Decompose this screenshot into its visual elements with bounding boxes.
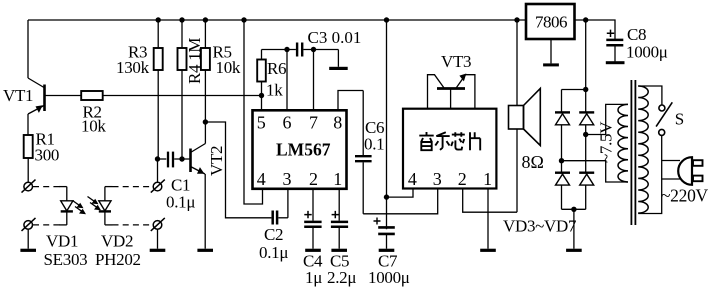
capacitor C8: [606, 30, 623, 62]
wire C6 bottom to music pin3: [363, 189, 438, 214]
wire J3 up to node A: [157, 159, 159, 182]
pin 1: [333, 169, 342, 189]
label R4 1M (rotated): [185, 38, 204, 84]
music pin 1: [483, 169, 492, 189]
pin 4: [257, 169, 266, 189]
diode VD4 upper-left: [555, 90, 570, 161]
diode VD2 (photodiode): [99, 187, 111, 225]
diode VD5 upper-right: [579, 90, 594, 173]
label VD3~VD7: [503, 217, 577, 236]
plug ~220V: [678, 157, 702, 185]
pin 8: [333, 113, 342, 133]
pin 7: [309, 113, 318, 133]
svg-text:1000μ: 1000μ: [626, 43, 668, 62]
label C7 1000u: [368, 252, 410, 288]
capacitor C7: [374, 218, 395, 249]
node dots on C3 line: [284, 47, 316, 52]
wire dashed VD2 to J3: [105, 186, 153, 188]
switch S: [656, 102, 672, 135]
wire to plug bottom prong: [662, 178, 680, 180]
label R6 1k: [266, 59, 286, 100]
svg-text:300: 300: [35, 146, 60, 165]
wire rail to speaker top: [516, 20, 518, 106]
resistor R2: [81, 91, 103, 100]
node C (R5/VT2 collector): [203, 119, 208, 124]
svg-text:~7.5V: ~7.5V: [597, 121, 616, 163]
label VT2 (rotated): [207, 146, 226, 176]
ground under 7806: [543, 63, 559, 66]
wire pin5 lead: [261, 96, 263, 111]
node dots on rail: [156, 17, 589, 22]
svg-text:3: 3: [283, 169, 292, 189]
ground under C5: [331, 249, 347, 252]
wire speaker bottom: [516, 129, 518, 212]
svg-text:10k: 10k: [81, 117, 106, 136]
wire AC1 bridge to secondary bottom: [562, 161, 629, 182]
svg-text:6: 6: [283, 113, 292, 133]
jack J3 top-right: [151, 180, 165, 193]
wire rail right of 7806 to C8: [575, 20, 616, 40]
svg-text:VT2: VT2: [207, 146, 226, 176]
svg-text:VT3: VT3: [441, 52, 471, 71]
resistor R4: [178, 20, 187, 159]
wire pin6 lead: [286, 50, 288, 111]
svg-text:SE303: SE303: [44, 250, 88, 269]
label VD1 SE303: [44, 232, 88, 270]
wire switch down / plug branch: [638, 136, 662, 214]
svg-text:1k: 1k: [266, 81, 283, 100]
wire bridge bottom bar: [562, 208, 586, 210]
svg-text:1: 1: [333, 169, 342, 189]
svg-text:1μ: 1μ: [305, 268, 322, 287]
capacitor C6: [355, 91, 372, 214]
svg-text:10k: 10k: [216, 58, 241, 77]
music pin 2: [458, 169, 467, 189]
node B (R4/VT2 base): [179, 156, 184, 161]
wire 7806 ground: [550, 39, 552, 63]
wire pin8 lead: [338, 91, 363, 111]
node R6/pin5: [259, 93, 264, 98]
resistor R6: [257, 50, 266, 96]
svg-text:~220V: ~220V: [661, 186, 709, 206]
svg-text:3: 3: [433, 169, 442, 189]
wire music pin1 to ground: [487, 189, 489, 249]
capacitor C3: [297, 43, 338, 57]
transistor VT1: [28, 20, 45, 135]
ground under bridge: [566, 249, 582, 252]
label ~7.5V (rotated): [597, 121, 616, 163]
wire R1 to jack: [27, 158, 29, 182]
pin 6: [283, 113, 292, 133]
regulator U3 7806 box: [526, 4, 575, 39]
arrows VD1 emitting: [73, 201, 87, 215]
svg-text:C2: C2: [264, 225, 283, 244]
wire R2 to R6/pin5 node: [103, 95, 262, 97]
pin 3: [283, 169, 292, 189]
svg-text:C8: C8: [627, 25, 646, 44]
wire J2 to ground: [27, 229, 29, 249]
wire LM567 pin4 to rail: [244, 20, 263, 204]
label C5 2.2u: [327, 252, 356, 288]
svg-text:0.1: 0.1: [364, 135, 384, 154]
transformer T secondary winding ~7.5V: [618, 104, 628, 182]
svg-text:7: 7: [309, 113, 318, 133]
svg-text:1000μ: 1000μ: [368, 268, 410, 287]
label C4 1u: [303, 252, 323, 288]
wire VT2 collector node to C2: [205, 122, 271, 218]
ground under music pin1: [480, 249, 496, 252]
ground under VT2 emitter: [197, 249, 213, 252]
svg-text:PH202: PH202: [95, 250, 141, 269]
label C1 0.1u: [166, 176, 195, 212]
svg-text:VD1: VD1: [46, 232, 78, 251]
wire dashed VD2 to J4: [105, 224, 153, 226]
label ~220V: [661, 186, 709, 206]
diode VD6 lower-left: [555, 161, 570, 210]
ground under C4: [305, 249, 321, 252]
wire bridge top bar: [562, 89, 586, 91]
svg-text:4: 4: [408, 169, 417, 189]
wire VT1 base to R2: [45, 95, 82, 97]
svg-text:LM567: LM567: [276, 140, 331, 160]
label VD2 PH202: [95, 232, 141, 270]
speaker BL: [509, 89, 541, 146]
label 8 ohm: [522, 152, 544, 172]
wire pin7 lead: [313, 50, 315, 111]
capacitor C1: [158, 152, 191, 168]
transistor VT3: [428, 74, 475, 109]
svg-text:4: 4: [257, 169, 266, 189]
node dots bridge: [559, 87, 589, 212]
diode VD1 (IR emitter): [61, 187, 73, 225]
transformer T primary winding: [638, 86, 648, 213]
ground under C7: [379, 249, 395, 252]
label C3 0.01: [308, 28, 362, 47]
wire dashed VD1 to J2: [33, 224, 67, 226]
wire music pin2 to speaker: [463, 189, 517, 213]
svg-text:0.1μ: 0.1μ: [259, 243, 288, 262]
wire top supply rail: [28, 19, 526, 21]
wire C3 to ground: [337, 50, 339, 67]
ground after C3: [329, 67, 348, 70]
svg-text:130k: 130k: [116, 58, 150, 77]
wire dashed J1 to VD1: [33, 186, 67, 188]
label R1 300: [35, 130, 60, 165]
label C2 0.1u: [259, 225, 288, 262]
svg-text:VD3~VD7: VD3~VD7: [503, 217, 577, 236]
svg-text:VT1: VT1: [3, 86, 33, 105]
label music chip (drawn glyphs): [419, 132, 480, 150]
svg-text:2.2μ: 2.2μ: [327, 268, 356, 287]
svg-text:VD2: VD2: [101, 232, 133, 251]
svg-text:8: 8: [333, 113, 342, 133]
svg-text:0.1μ: 0.1μ: [166, 193, 195, 212]
IC U2 music chip box: [403, 109, 496, 189]
label S: [675, 110, 684, 129]
node A (R3/C1/J3): [155, 156, 160, 161]
svg-text:2: 2: [309, 169, 318, 189]
diode VD7 lower-right: [579, 173, 594, 210]
music pin 3: [433, 169, 442, 189]
ground under J2: [20, 249, 36, 252]
wire C3 top line: [262, 49, 296, 51]
label LM567: [276, 140, 331, 160]
music pin 4: [408, 169, 417, 189]
label R2 10k: [81, 103, 106, 136]
pin 2: [309, 169, 318, 189]
jack J1 top-left: [22, 180, 36, 193]
label C6 0.1: [364, 118, 384, 154]
op-amp U1 LM567 box: [253, 110, 347, 189]
label 7806: [535, 13, 567, 32]
svg-text:5: 5: [257, 113, 266, 133]
wire J4 to ground: [157, 229, 159, 249]
svg-text:1: 1: [483, 169, 492, 189]
label R3 130k: [116, 43, 150, 78]
label VT3: [441, 52, 471, 71]
svg-text:C3 0.01: C3 0.01: [308, 28, 362, 47]
jack J2 bottom-left: [22, 218, 36, 231]
wire 7806 output down to bridge: [585, 20, 587, 90]
label C8 1000u: [626, 25, 668, 62]
node D (C7/music pin4): [384, 194, 389, 199]
wire music power line from rail: [386, 20, 388, 229]
svg-text:R6: R6: [267, 59, 286, 78]
svg-text:7806: 7806: [535, 13, 567, 32]
transistor VT2: [191, 122, 206, 249]
ground under C8: [606, 61, 625, 64]
arrows VD2 receiving: [88, 197, 102, 211]
svg-text:8Ω: 8Ω: [522, 152, 544, 172]
wire to plug top prong: [662, 160, 680, 162]
wire LM567 pin3 lead: [287, 189, 289, 218]
wire AC2 bridge to secondary top: [586, 104, 628, 134]
ground under J4: [150, 249, 166, 252]
wire music pin4 lead: [387, 189, 414, 198]
capacitor C4: [304, 189, 321, 249]
resistor R1: [24, 135, 33, 158]
svg-text:S: S: [675, 110, 684, 129]
pin 5: [257, 113, 266, 133]
capacitor C5: [331, 189, 348, 249]
wire bridge to ground: [573, 209, 575, 248]
transformer core: [631, 80, 635, 225]
resistor R5: [201, 20, 210, 122]
label R5 10k: [213, 43, 241, 78]
resistor R3: [154, 20, 163, 159]
capacitor C2: [273, 211, 288, 225]
wire primary top to switch: [638, 86, 662, 105]
svg-text:2: 2: [458, 169, 467, 189]
jack J4 bottom-right: [151, 218, 165, 231]
label VT1: [3, 86, 33, 105]
